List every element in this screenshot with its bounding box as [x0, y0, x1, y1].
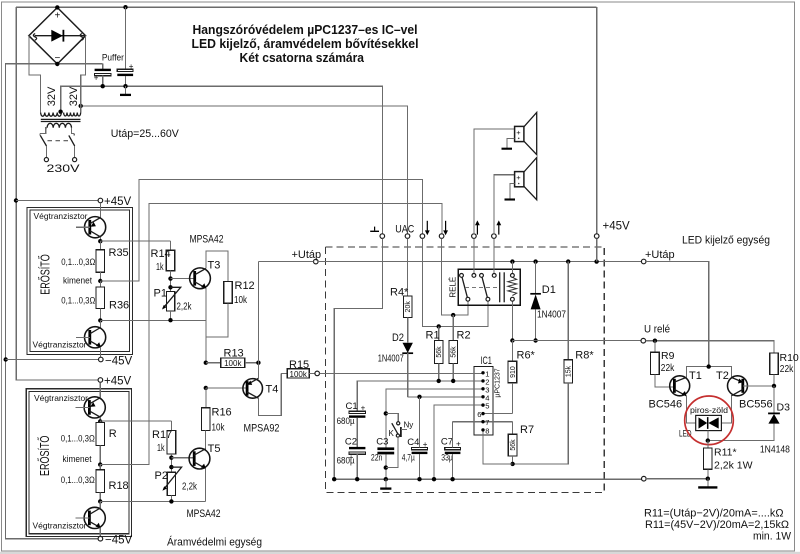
svg-text:33µ: 33µ [441, 453, 453, 464]
ground symbol LED [698, 479, 717, 488]
svg-text:2,2k: 2,2k [182, 481, 198, 493]
capacitor C2 [337, 436, 366, 479]
junction right cap gnd [123, 84, 127, 88]
wire: -V rail from bridge [5, 64, 102, 539]
svg-text:2,2k: 2,2k [177, 301, 193, 313]
terminal +Utap port [292, 249, 322, 264]
resistor R8* [513, 262, 595, 464]
svg-text:5: 5 [485, 402, 489, 411]
wire to R17 [100, 420, 171, 422]
svg-text:R4*: R4* [390, 287, 409, 299]
svg-text:T1: T1 [689, 370, 702, 382]
junction R10 bottom D3 [772, 384, 776, 388]
svg-text:56k: 56k [451, 346, 458, 358]
junction bridge minus [55, 62, 59, 66]
terminal ground port [370, 227, 384, 239]
terminal -45V amp1 [99, 356, 133, 368]
junction +45V feed [594, 238, 598, 263]
svg-text:32V: 32V [46, 86, 58, 106]
svg-text:R11*: R11* [714, 447, 737, 459]
wire: amp2 output riser to relay [100, 204, 442, 465]
terminal amp out L port [420, 221, 430, 239]
resistor R13 [204, 348, 259, 368]
svg-text:BC556: BC556 [739, 399, 773, 411]
svg-text:R7: R7 [520, 424, 534, 436]
title text [192, 22, 419, 65]
wire: +Utap LED feed [646, 262, 709, 367]
svg-text:10k: 10k [234, 294, 248, 306]
svg-text:6: 6 [477, 410, 481, 419]
svg-text:0,1...0,3Ω: 0,1...0,3Ω [61, 296, 95, 307]
wire: +Utap bus [258, 261, 641, 263]
terminal R15 out [315, 371, 320, 376]
svg-text:C3: C3 [376, 437, 388, 448]
transistor amp1 lower [76, 320, 106, 357]
junction transformer right tap [79, 104, 83, 108]
junction coil top [510, 259, 514, 263]
svg-text:1N4007: 1N4007 [378, 353, 404, 364]
dashed protection box [326, 247, 605, 493]
resistor R amp2 [61, 421, 117, 464]
svg-text:R11=(Utáp−2V)/20mA=....kΩ: R11=(Utáp−2V)/20mA=....kΩ [644, 508, 784, 520]
capacitor C3 [371, 437, 394, 480]
junction pin3 node [384, 411, 388, 415]
svg-text:K: K [389, 429, 395, 438]
resistor R14 [151, 241, 175, 292]
svg-text:R11=(45V−2V)/20mA=2,15kΩ: R11=(45V−2V)/20mA=2,15kΩ [645, 519, 789, 531]
svg-text:Áramvédelmi egység: Áramvédelmi egység [167, 536, 262, 549]
svg-text:8: 8 [485, 426, 489, 435]
junction R35 top [98, 239, 102, 243]
node: ground bus from transformer center tap [61, 86, 383, 234]
resistor R15 [281, 359, 315, 379]
svg-text:1N4007: 1N4007 [537, 310, 566, 321]
label current protection unit [167, 536, 262, 549]
svg-text:0,1...0,3Ω: 0,1...0,3Ω [61, 475, 95, 486]
node kimenet amp1 [63, 276, 103, 287]
svg-text:Végtranzisztor: Végtranzisztor [34, 393, 88, 403]
wire to R14 [100, 240, 170, 242]
svg-text:R17: R17 [152, 429, 172, 441]
resistor R11* [704, 441, 753, 479]
junction P2 bottom [169, 499, 173, 503]
terminal -45V amp2 [98, 535, 132, 547]
terminal +45V amp2 [98, 376, 131, 388]
resistor R9 [651, 341, 676, 387]
wire: speaker R feed [494, 175, 515, 234]
svg-text:LED kijelző egység: LED kijelző egység [682, 235, 770, 247]
wire: ground bus bottom [334, 478, 641, 480]
junction R1 bottom [437, 379, 441, 383]
svg-text:+: + [516, 173, 521, 182]
resistor R12 [206, 280, 255, 337]
svg-text:C1: C1 [346, 401, 358, 412]
wire: pin6 line [483, 413, 512, 415]
svg-text:R15: R15 [289, 359, 309, 371]
junction coil bottom / U rele [510, 338, 514, 342]
junction P1 wiper [168, 285, 172, 289]
resistor R36 [61, 281, 129, 320]
svg-text:+45V: +45V [603, 221, 631, 233]
resistor R7 [508, 422, 534, 464]
svg-text:RELÉ: RELÉ [449, 277, 458, 298]
terminal speaker R port [492, 220, 502, 238]
transistor amp2 upper [76, 382, 106, 421]
svg-text:D1: D1 [542, 284, 556, 296]
terminal speaker L port [472, 220, 480, 238]
junction +45V amp1 [14, 198, 18, 202]
label LED display unit [682, 235, 770, 247]
amplifier block 1 box [27, 208, 133, 355]
svg-text:R6*: R6* [517, 350, 536, 362]
svg-text:D3: D3 [777, 402, 791, 414]
wire: relay drive L [422, 238, 488, 326]
wire: amp1 output riser to relay [100, 180, 422, 282]
svg-text:R12: R12 [235, 280, 255, 292]
terminal U rele port [641, 324, 670, 344]
svg-text:ERŐSÍTŐ: ERŐSÍTŐ [36, 436, 52, 476]
svg-text:R9: R9 [661, 350, 675, 362]
svg-text:+: + [456, 440, 461, 449]
speaker LS1 [502, 113, 537, 155]
svg-text:C4: C4 [407, 437, 419, 448]
amplifier block 2 box [26, 389, 131, 537]
svg-text:910: 910 [510, 366, 517, 378]
junction R8 top [566, 259, 570, 263]
wire: pin5 line [434, 405, 483, 479]
wire: relay drive R [442, 238, 468, 315]
junction -45V amp1 [3, 357, 7, 361]
svg-text:56k: 56k [510, 439, 517, 451]
resistor R10 [770, 352, 799, 386]
svg-text:Végtranzisztor: Végtranzisztor [33, 340, 87, 350]
junction R9 top [653, 339, 657, 343]
diode D2 1N4007 [378, 332, 413, 397]
wire: U rele line [512, 340, 641, 342]
junction P2 wiper [169, 465, 173, 469]
capacitor C1 [337, 401, 366, 447]
svg-text:kimenet: kimenet [63, 454, 92, 465]
svg-text:32V: 32V [68, 86, 80, 106]
switch K/Ny [386, 413, 413, 467]
junction R7 bottom [510, 462, 514, 466]
node: +45V top bus wire [16, 7, 597, 234]
svg-text:R36: R36 [109, 300, 129, 312]
svg-text:U relé: U relé [644, 324, 670, 336]
transistor amp1 upper [76, 203, 106, 241]
svg-text:230V: 230V [47, 163, 81, 175]
svg-text:LED: LED [679, 429, 692, 439]
terminal +45V port [594, 221, 630, 239]
junction T4 base [204, 386, 248, 390]
svg-text:R35: R35 [109, 247, 129, 259]
svg-text:R10: R10 [780, 352, 799, 364]
junction C3 bottom [384, 465, 388, 469]
junction T5 base [169, 456, 194, 460]
svg-text:T4: T4 [266, 384, 279, 396]
svg-text:+: + [361, 404, 366, 413]
terminal amp out R port [439, 221, 448, 239]
svg-text:4,7µ: 4,7µ [402, 453, 415, 464]
junction R top amp2 [98, 419, 102, 423]
svg-text:+45V: +45V [104, 196, 132, 208]
svg-text:1k: 1k [156, 261, 164, 273]
svg-text:R1: R1 [426, 330, 440, 342]
resistor R1 [426, 326, 444, 381]
formula text R11 [644, 508, 792, 543]
svg-text:IC1: IC1 [480, 355, 492, 367]
junction D1 bottom [533, 338, 537, 342]
svg-text:R2: R2 [457, 330, 471, 342]
svg-text:Két csatorna számára: Két csatorna számára [240, 50, 365, 65]
junction transformer center tap [58, 110, 62, 114]
transistor T1 BC546 [649, 370, 702, 423]
wire: speaker L feed [474, 129, 515, 234]
svg-text:22n: 22n [371, 453, 383, 464]
terminal ground LED port [642, 476, 708, 481]
transistor T2 BC556 [716, 370, 774, 423]
svg-text:+: + [423, 440, 428, 449]
svg-text:C7: C7 [441, 436, 453, 447]
transistor T3 MPSA42 [190, 234, 229, 363]
terminal +45V amp1 [98, 196, 131, 208]
diode D1 1N4007 [530, 262, 566, 341]
svg-text:Utáp=25...60V: Utáp=25...60V [111, 128, 180, 140]
svg-text:100k: 100k [290, 370, 308, 379]
svg-text:680µ: 680µ [337, 416, 355, 427]
diode D3 1N4148 [708, 386, 790, 455]
junction R18 bottom [98, 499, 102, 503]
svg-text:1k: 1k [157, 442, 165, 454]
ground symbol center [380, 479, 391, 488]
wire: pin3 line to C3 [386, 389, 483, 448]
svg-text:C2: C2 [345, 436, 357, 447]
svg-text:+: + [54, 11, 60, 22]
junction right cap riser [123, 5, 127, 9]
wire: pin4 line [408, 396, 483, 398]
potentiometer P1 [154, 287, 193, 320]
junction R36 bottom [98, 318, 102, 322]
wire: pin8 riser [483, 430, 513, 464]
wire: +45V to amp1 [16, 200, 98, 202]
svg-text:+45V: +45V [104, 376, 132, 388]
svg-text:+Utáp: +Utáp [645, 249, 675, 261]
wire: -45V to amp1 [6, 359, 99, 361]
wire: ground port riser [334, 238, 382, 479]
wire: pin7 line [453, 421, 513, 423]
capacitor Puffer left [94, 64, 111, 86]
svg-text:20k: 20k [405, 301, 412, 313]
IC1 uPC1237 [474, 355, 502, 435]
svg-text:LED kijelző, áramvédelem bővít: LED kijelző, áramvédelem bővítésekkel [192, 36, 419, 51]
transistor T5 MPSA42 [187, 443, 221, 520]
svg-text:kimenet: kimenet [63, 276, 92, 287]
junction R2 top [451, 313, 455, 317]
junction R11 bottom [706, 477, 710, 481]
svg-text:100k: 100k [224, 359, 242, 368]
svg-text:P2: P2 [155, 470, 168, 482]
ground symbol near Puffer [120, 86, 131, 95]
junction R2 bottom [451, 379, 455, 383]
resistor R16 [202, 388, 232, 451]
svg-text:T2: T2 [716, 370, 729, 382]
svg-text:Hangszóróvédelem µPC1237–es IC: Hangszóróvédelem µPC1237–es IC–vel [193, 22, 418, 37]
svg-text:22k: 22k [780, 364, 794, 375]
svg-text:1N4148: 1N4148 [760, 444, 790, 455]
svg-text:MPSA42: MPSA42 [187, 508, 221, 520]
resistor R17 [152, 421, 176, 472]
svg-text:−45V: −45V [105, 535, 133, 547]
wire: emitter line ch2 [100, 500, 205, 502]
svg-text:0,1...0,3Ω: 0,1...0,3Ω [61, 434, 95, 445]
svg-text:+: + [516, 128, 521, 137]
wire: T1 T2 top rail [686, 367, 731, 378]
svg-text:10k: 10k [212, 422, 226, 434]
svg-text:−45V: −45V [105, 356, 133, 368]
bridge rectifier B1 [29, 8, 86, 65]
svg-text:+: + [129, 62, 134, 71]
svg-text:56k: 56k [436, 346, 443, 358]
resistor R18 [61, 465, 129, 502]
resistor R2 [449, 315, 471, 381]
svg-text:T5: T5 [208, 443, 221, 455]
svg-text:MPSA92: MPSA92 [244, 423, 280, 435]
svg-text:µPC1237: µPC1237 [495, 368, 502, 397]
svg-text:UAC: UAC [395, 224, 414, 236]
terminal UAC port [395, 224, 414, 239]
wire: emitter line ch1 [100, 319, 206, 321]
IC pins [477, 369, 489, 435]
potentiometer P2 [155, 467, 198, 501]
transformer TR1 [29, 36, 86, 134]
svg-text:Végtranzisztor: Végtranzisztor [34, 211, 88, 221]
junction P1 bottom [168, 318, 172, 322]
svg-text:15k: 15k [566, 365, 573, 377]
svg-text:Ny: Ny [404, 421, 414, 430]
transistor T4 MPSA92 [243, 262, 281, 435]
speaker LS2 [505, 158, 537, 200]
svg-text:MPSA42: MPSA42 [190, 234, 224, 246]
svg-text:Puffer: Puffer [102, 52, 124, 63]
junction LED bottom [706, 438, 710, 442]
svg-text:+: + [94, 74, 99, 83]
label Utap supply [111, 128, 180, 140]
wire: U rele LED line [646, 341, 774, 353]
node kimenet amp2 [63, 454, 103, 467]
wire: UAC sense line [81, 106, 408, 234]
resistor R35 [61, 241, 128, 281]
svg-text:+Utáp: +Utáp [292, 249, 322, 261]
capacitor C4 [402, 397, 428, 479]
terminal +Utap LED [641, 249, 674, 264]
junction gnd C1C2 [332, 477, 455, 481]
svg-text:min. 1W: min. 1W [753, 531, 792, 543]
resistor R6* [508, 341, 535, 414]
junction R1 top [437, 324, 441, 328]
annotation red circle [685, 396, 734, 445]
svg-text:R18: R18 [109, 480, 129, 492]
relay K1 [449, 238, 521, 338]
wire: pin1 line [320, 372, 484, 374]
svg-text:R8*: R8* [575, 350, 594, 362]
svg-text:R13: R13 [224, 348, 244, 360]
svg-text:ERŐSÍTŐ: ERŐSÍTŐ [37, 254, 53, 294]
junction left cap gnd [101, 84, 105, 88]
resistor R4* [390, 238, 412, 342]
wire: +45V left rail [16, 7, 98, 380]
svg-text:T3: T3 [208, 260, 221, 272]
svg-text:piros-zöld: piros-zöld [690, 406, 728, 415]
svg-text:D2: D2 [392, 332, 404, 344]
svg-text:22k: 22k [661, 363, 675, 374]
junction T3 base [168, 276, 194, 280]
svg-text:P1: P1 [154, 288, 167, 300]
junction rail feed [707, 364, 711, 368]
svg-text:680µ: 680µ [337, 455, 355, 466]
svg-text:2,2k 1W: 2,2k 1W [714, 460, 753, 472]
junction D1 top [533, 259, 537, 263]
svg-text:R: R [109, 428, 117, 440]
junction R13 right / T4 collector [256, 361, 260, 365]
junction C4 top [417, 395, 421, 399]
LED dual red-green [679, 415, 721, 440]
capacitor Puffer right [102, 7, 134, 86]
transistor amp2 lower [76, 501, 106, 536]
junction top vertex [55, 5, 59, 9]
svg-text:Végtranzisztor: Végtranzisztor [33, 521, 87, 531]
capacitor C7 [441, 422, 461, 480]
wire: pin2 line to C1 [357, 381, 483, 411]
switch S1 230V [40, 133, 80, 174]
svg-text:0,1...0,3Ω: 0,1...0,3Ω [61, 257, 95, 268]
svg-text:R14: R14 [151, 248, 171, 260]
svg-text:R16: R16 [212, 407, 232, 419]
svg-text:BC546: BC546 [649, 399, 683, 411]
